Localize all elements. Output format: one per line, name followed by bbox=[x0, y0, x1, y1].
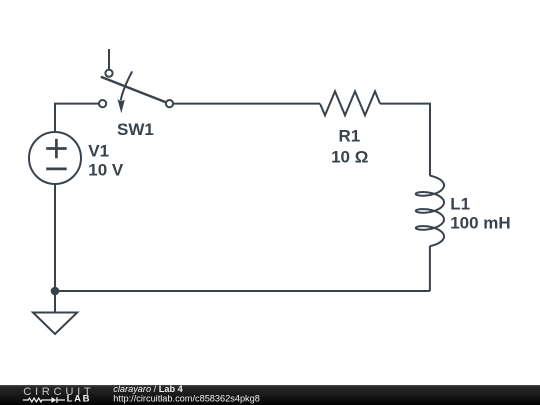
switch SW1 lever bbox=[101, 77, 166, 102]
ground bbox=[33, 313, 77, 335]
svg-text:10 V: 10 V bbox=[88, 160, 124, 179]
svg-text:R1: R1 bbox=[339, 127, 361, 146]
svg-text:LAB: LAB bbox=[67, 394, 92, 405]
svg-text:SW1: SW1 bbox=[117, 120, 154, 139]
wire resistor to top-right corner and down bbox=[380, 104, 430, 176]
switch SW1 pole terminal circle (left) bbox=[99, 100, 106, 107]
svg-text:100 mH: 100 mH bbox=[450, 214, 510, 233]
footer bar bbox=[0, 385, 540, 405]
wire bottom rail bbox=[55, 290, 430, 292]
svg-text:http://circuitlab.com/c858362s: http://circuitlab.com/c858362s4pkg8 bbox=[113, 393, 260, 403]
svg-text:10 Ω: 10 Ω bbox=[331, 147, 368, 166]
wire switch right terminal to resistor R1 bbox=[173, 103, 320, 105]
switch SW1 throw terminal circle bbox=[105, 70, 112, 77]
wire from V1 top to switch pole bbox=[55, 104, 99, 132]
switch SW1 right terminal circle bbox=[166, 100, 173, 107]
inductor L1 coil bbox=[416, 176, 444, 246]
switch SW1 actuation arrow (curved) bbox=[118, 71, 133, 113]
svg-text:V1: V1 bbox=[88, 141, 109, 160]
resistor R1 bbox=[320, 91, 380, 115]
wire inductor bottom to bottom rail bbox=[429, 246, 431, 291]
junction node bbox=[51, 287, 60, 296]
logo schematic: diode bbox=[57, 397, 65, 403]
svg-text:L1: L1 bbox=[450, 194, 470, 213]
voltage source V1 bbox=[29, 132, 81, 184]
label R1 value bbox=[331, 127, 368, 167]
wire junction to ground bbox=[54, 291, 56, 313]
wire top stub above switch bbox=[108, 49, 110, 69]
label L1 value bbox=[450, 194, 510, 232]
logo schematic lead: resistor zigzag bbox=[23, 397, 65, 403]
wire V1 bottom to junction bbox=[54, 184, 56, 291]
label V1 value bbox=[88, 141, 124, 179]
